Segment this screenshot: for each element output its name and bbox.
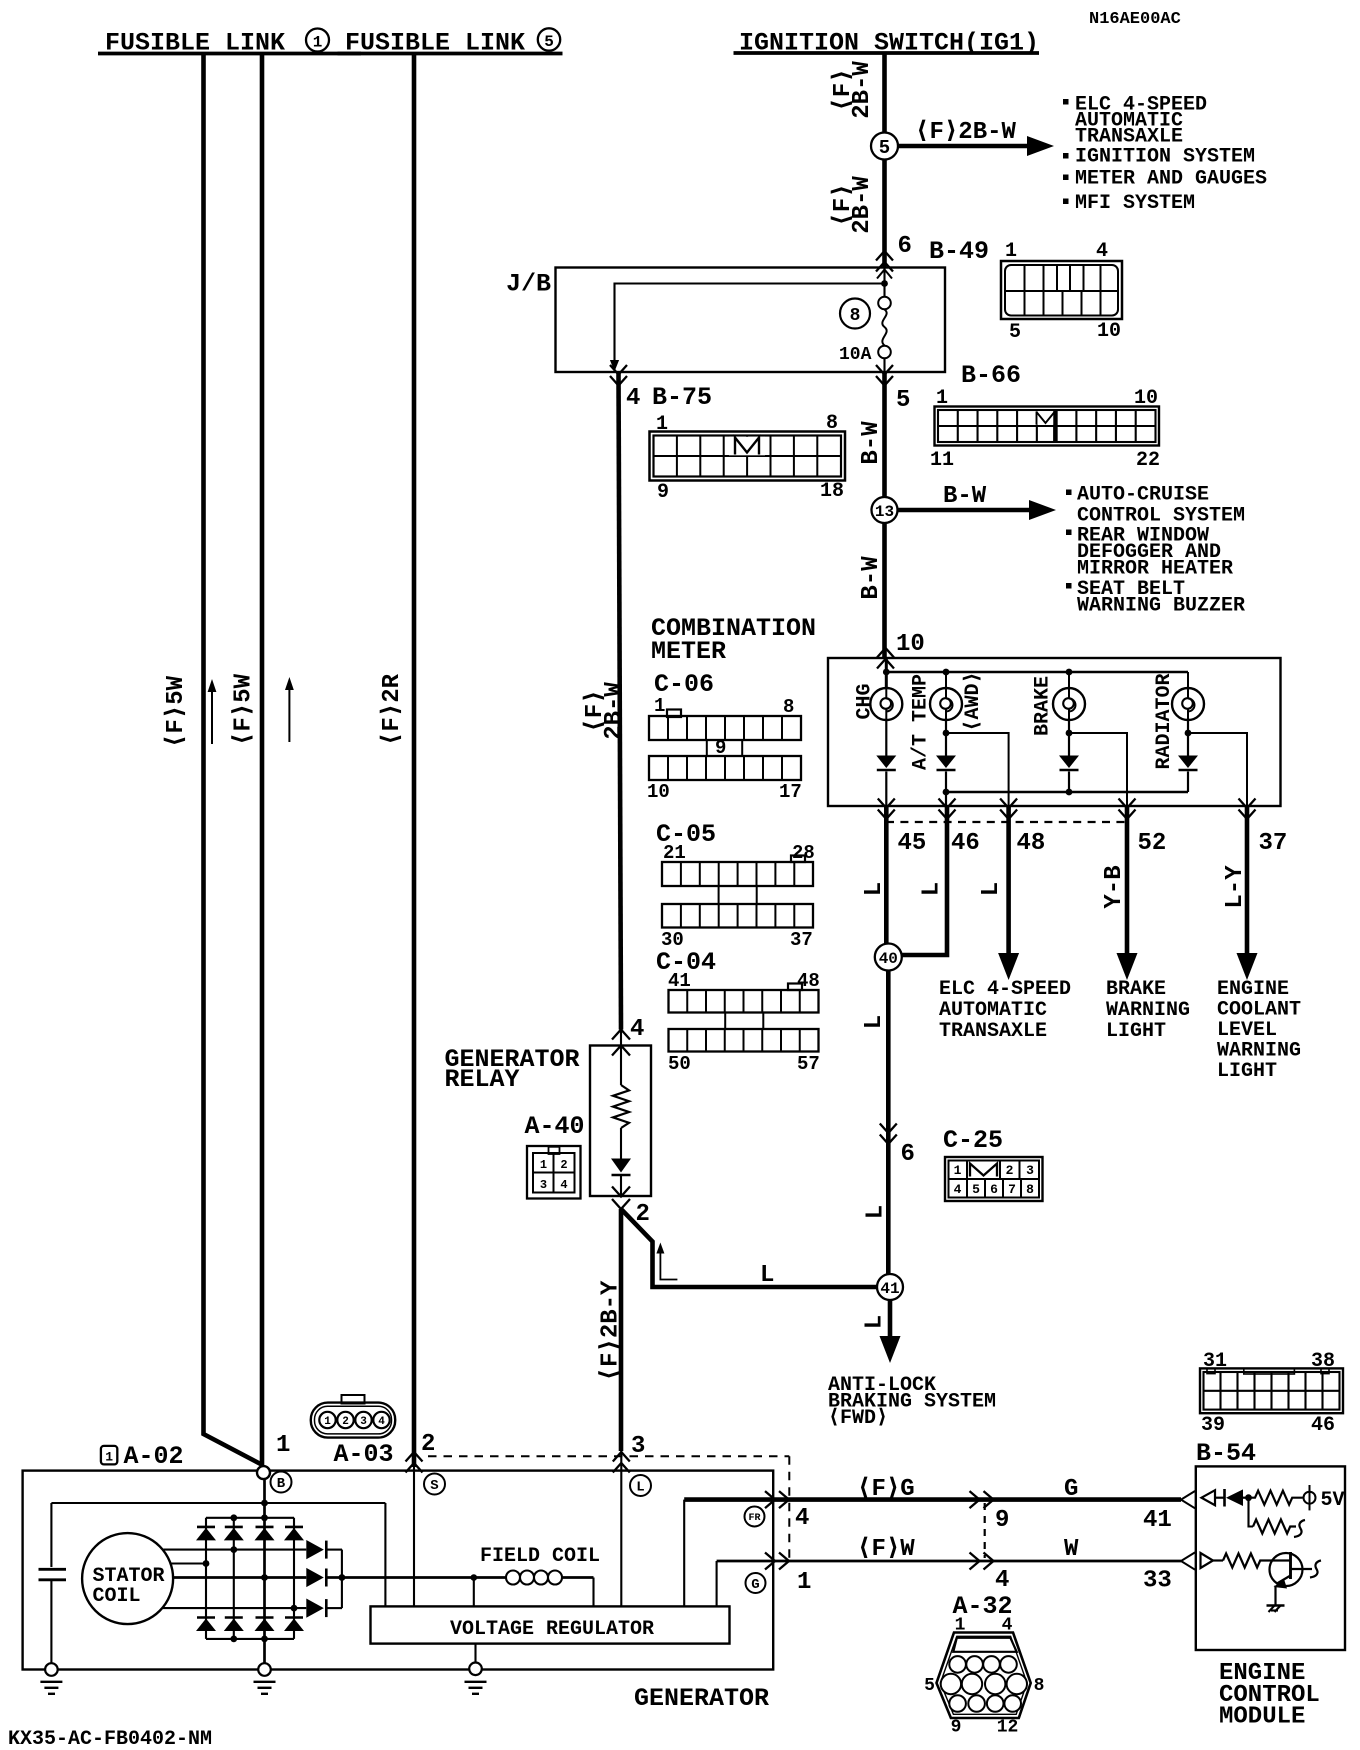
rectifier diode lower 1 — [196, 1618, 216, 1632]
svg-text:B-W: B-W — [943, 483, 987, 510]
stator phase wire 4 — [163, 1605, 307, 1612]
svg-text:GENERATOR: GENERATOR — [634, 1684, 769, 1713]
wire generator relay to node 41 — [621, 1209, 877, 1287]
svg-text:FR: FR — [748, 1513, 760, 1524]
connector crossing pin 5 double chevron below J/B — [876, 365, 893, 375]
terminal label circled S — [424, 1474, 445, 1495]
rectifier diode lower 4 — [284, 1618, 304, 1632]
svg-text:9: 9 — [715, 737, 726, 759]
svg-text:1: 1 — [1005, 240, 1017, 263]
svg-text:18: 18 — [820, 480, 844, 503]
A/T TEMP warning lamp — [930, 688, 962, 720]
terminal label circled G — [746, 1573, 766, 1593]
flow arrow on wire A — [208, 679, 217, 744]
svg-text:2B-W: 2B-W — [601, 682, 628, 740]
lamp label BRAKE — [1032, 676, 1055, 736]
svg-text:48: 48 — [1017, 830, 1046, 857]
svg-text:FIELD COIL: FIELD COIL — [480, 1545, 600, 1568]
svg-text:22: 22 — [1136, 449, 1160, 472]
rectifier ground — [254, 1663, 276, 1694]
rectifier diode lower 3 — [255, 1618, 275, 1632]
connector crossing FR wire double chevron — [765, 1491, 775, 1508]
svg-text:3: 3 — [1026, 1163, 1034, 1178]
wire B terminal down through rectifier — [263, 1479, 266, 1670]
svg-text:1: 1 — [656, 413, 668, 436]
connector crossing relay pin 4 chevron — [612, 1030, 630, 1040]
svg-text:9: 9 — [995, 1507, 1009, 1534]
svg-text:1: 1 — [954, 1163, 962, 1178]
svg-text:J/B: J/B — [506, 270, 551, 299]
relay internal wire and resistor — [613, 1030, 629, 1159]
wire label L above node 41 — [862, 1205, 889, 1219]
ECM pull-up resistor — [1249, 1491, 1303, 1505]
lamp label AWD — [962, 671, 985, 731]
connector B-54 pin face — [1200, 1368, 1343, 1413]
svg-text:G: G — [751, 1577, 759, 1593]
svg-text:9: 9 — [657, 481, 669, 504]
svg-text:2: 2 — [1006, 1163, 1014, 1178]
destination text engine coolant level warning light — [1217, 978, 1301, 1083]
node 13 splice — [872, 497, 898, 523]
svg-text:CHG: CHG — [854, 683, 877, 719]
svg-text:L: L — [862, 1205, 889, 1219]
node 40 splice — [875, 944, 902, 971]
diode output bus inside meter — [943, 789, 1188, 796]
svg-text:C-25: C-25 — [943, 1126, 1003, 1155]
connector crossing meter pin 10 double chevron — [877, 648, 894, 658]
rectifier diode right 1 — [306, 1540, 342, 1559]
svg-text:LIGHT: LIGHT — [1217, 1060, 1277, 1083]
svg-text:40: 40 — [879, 950, 898, 968]
svg-text:4: 4 — [626, 385, 640, 412]
junction dot inside J/B — [881, 280, 888, 287]
radiator warning lamp — [1172, 688, 1204, 720]
svg-text:5: 5 — [896, 387, 910, 414]
svg-text:50: 50 — [668, 1053, 691, 1075]
wire label B-W below node 13 — [858, 556, 885, 600]
connector crossing pin 4 double chevron below J/B — [610, 365, 627, 375]
rectifier diode lower 2 — [224, 1618, 244, 1632]
svg-text:8: 8 — [826, 412, 838, 435]
svg-text:TRANSAXLE: TRANSAXLE — [939, 1020, 1047, 1043]
wire generator G output to engine control module — [717, 1560, 1181, 1563]
svg-text:4: 4 — [795, 1505, 809, 1532]
wire label B-W above node 13 — [858, 421, 885, 465]
connector C-06 pin face — [649, 710, 801, 781]
female terminal at ECM pin 33 — [1181, 1552, 1195, 1569]
connector B-54 pin numbers top — [1203, 1350, 1335, 1373]
wire B terminal bus inside generator — [51, 1500, 385, 1607]
connector B-49 pin numbers — [1005, 240, 1121, 344]
wire fusible link 5 (F)2R to generator S terminal — [412, 55, 417, 1467]
wire node 5 down to junction block — [882, 160, 887, 268]
connector C-06 pin numbers — [647, 695, 802, 803]
svg-text:⟨F⟩2R: ⟨F⟩2R — [379, 673, 406, 746]
svg-text:10: 10 — [896, 631, 925, 658]
svg-text:1: 1 — [936, 387, 948, 410]
svg-text:BRAKE: BRAKE — [1106, 978, 1166, 1001]
svg-text:B-66: B-66 — [961, 361, 1021, 390]
svg-text:BRAKE: BRAKE — [1032, 676, 1055, 736]
svg-text:A-03: A-03 — [334, 1440, 394, 1469]
arrow entering relay top — [612, 1046, 630, 1056]
wire label (F)2B-W upper — [830, 61, 876, 119]
svg-text:21: 21 — [663, 842, 686, 864]
ECM input terminal pin 41 — [1202, 1490, 1224, 1505]
wire ignition switch IG1 down to node 5 — [882, 54, 887, 133]
svg-text:1: 1 — [105, 1450, 113, 1465]
svg-text:4: 4 — [954, 1182, 962, 1197]
svg-text:WARNING BUZZER: WARNING BUZZER — [1077, 595, 1245, 618]
svg-text:A-40: A-40 — [525, 1112, 585, 1141]
svg-text:MFI SYSTEM: MFI SYSTEM — [1075, 192, 1195, 215]
destination text anti-lock braking system — [828, 1374, 996, 1430]
svg-text:N16AE00AC: N16AE00AC — [1089, 10, 1181, 29]
voltage regulator box — [371, 1606, 730, 1643]
svg-text:5: 5 — [1009, 321, 1021, 344]
svg-text:WARNING: WARNING — [1106, 999, 1190, 1022]
svg-text:17: 17 — [779, 781, 802, 803]
junction dot in ECM — [1245, 1494, 1252, 1501]
svg-text:L: L — [861, 1315, 888, 1329]
svg-text:⟨F⟩2B-W: ⟨F⟩2B-W — [915, 119, 1017, 146]
wires lamps to diodes — [886, 720, 1188, 756]
ECM ground — [1267, 1606, 1285, 1613]
wire fusible link 1 branch A (F)5W to generator B terminal — [204, 55, 262, 1465]
rectifier diode upper 3 — [255, 1527, 275, 1541]
power source label FUSIBLE LINK 1 — [98, 29, 361, 58]
wire node 41 to anti-lock braking system — [880, 1300, 901, 1363]
svg-text:8: 8 — [783, 696, 794, 718]
svg-text:52: 52 — [1138, 830, 1167, 857]
svg-text:4: 4 — [995, 1567, 1009, 1594]
svg-text:8: 8 — [1034, 1676, 1045, 1696]
svg-text:3: 3 — [360, 1416, 367, 1428]
fuse number circled 8 — [840, 299, 870, 329]
destination text brake warning light — [1106, 978, 1190, 1043]
svg-text:RADIATOR: RADIATOR — [1153, 673, 1176, 769]
connector A-32 crossing on FR wire — [970, 1491, 980, 1508]
svg-text:IGNITION SYSTEM: IGNITION SYSTEM — [1075, 146, 1255, 169]
svg-text:33: 33 — [1143, 1568, 1172, 1595]
svg-text:5: 5 — [972, 1182, 980, 1197]
generator relay box — [590, 1046, 651, 1197]
svg-text:46: 46 — [1311, 1414, 1335, 1437]
svg-text:8: 8 — [1026, 1182, 1034, 1197]
svg-text:KX35-AC-FB0402-NM: KX35-AC-FB0402-NM — [8, 1728, 212, 1750]
svg-text:A/T TEMP: A/T TEMP — [910, 674, 933, 770]
stator phase wire 2 — [171, 1560, 209, 1567]
terminal label circled B — [271, 1472, 292, 1493]
wire pin 45 to node 40 — [884, 806, 889, 944]
svg-text:5: 5 — [879, 137, 890, 159]
diode under A/T TEMP lamp — [936, 756, 956, 771]
svg-text:1: 1 — [654, 695, 665, 717]
wire label (F)5W second — [230, 673, 257, 746]
svg-text:2B-W: 2B-W — [849, 176, 876, 234]
junction block J/B box — [556, 268, 946, 373]
arrow entering J/B top — [877, 270, 892, 279]
connector crossing relay pin 2 double chevron — [612, 1187, 630, 1197]
wire inside J/B from ignition feed to left branch with arrow — [610, 284, 885, 372]
wire label (F)5W first — [163, 675, 190, 748]
wire generator FR output to engine control module — [684, 1497, 1181, 1502]
svg-text:L: L — [760, 1262, 774, 1289]
svg-text:2: 2 — [421, 1431, 435, 1458]
svg-text:Y-B: Y-B — [1101, 865, 1128, 908]
rectifier bottom bus — [206, 1636, 294, 1643]
rectifier output bus — [339, 1550, 346, 1609]
wire S terminal to voltage regulator — [413, 1467, 415, 1606]
svg-text:5: 5 — [924, 1676, 935, 1696]
svg-text:COIL: COIL — [93, 1585, 141, 1608]
engine control module label — [1219, 1660, 1320, 1731]
svg-text:⟨F⟩2B-Y: ⟨F⟩2B-Y — [597, 1280, 624, 1382]
svg-text:9: 9 — [951, 1718, 962, 1738]
destination list auto-cruise / defogger / seat belt — [1066, 484, 1245, 618]
rectifier top bus — [206, 1514, 294, 1521]
diode under RADIATOR lamp — [1178, 756, 1198, 771]
connector C-05 pin face — [662, 856, 813, 928]
rectifier diode upper 1 — [196, 1527, 216, 1541]
field coil — [342, 1571, 594, 1607]
connector crossing G wire double chevron — [765, 1553, 775, 1570]
power source label IGNITION SWITCH (IG1) — [734, 29, 1040, 58]
wire fusible link 1 branch B (F)5W to generator B terminal — [260, 55, 265, 1466]
svg-text:1: 1 — [276, 1432, 290, 1459]
svg-text:LIGHT: LIGHT — [1106, 1020, 1166, 1043]
generator B terminal — [257, 1466, 270, 1479]
wire bus drops to lamps — [946, 672, 1188, 689]
diode under BRAKE lamp — [1059, 756, 1079, 771]
diode under CHG lamp — [876, 756, 896, 771]
svg-text:VOLTAGE REGULATOR: VOLTAGE REGULATOR — [450, 1618, 654, 1641]
ECM sense resistor branch — [1249, 1498, 1306, 1537]
svg-text:4: 4 — [378, 1416, 385, 1428]
svg-text:RELAY: RELAY — [445, 1065, 520, 1094]
engine control module box — [1196, 1466, 1345, 1650]
svg-text:⟨AWD⟩: ⟨AWD⟩ — [962, 671, 985, 731]
svg-text:L: L — [636, 1480, 644, 1496]
svg-text:6: 6 — [898, 233, 912, 260]
female terminal at ECM pin 41 — [1181, 1491, 1195, 1508]
svg-text:⟨FWD⟩: ⟨FWD⟩ — [828, 1407, 888, 1430]
wire G terminal to voltage regulator — [716, 1561, 718, 1606]
svg-text:⟨F⟩5W: ⟨F⟩5W — [163, 675, 190, 748]
stator coil — [82, 1533, 173, 1624]
svg-text:3: 3 — [540, 1178, 547, 1192]
svg-text:2: 2 — [636, 1201, 650, 1228]
lamp label RADIATOR — [1153, 673, 1176, 769]
connector crossing B-49 pin 6 double chevron — [876, 251, 893, 261]
svg-text:ELC 4-SPEED: ELC 4-SPEED — [939, 978, 1071, 1001]
svg-text:⟨F⟩5W: ⟨F⟩5W — [230, 673, 257, 746]
wire RADIATOR lamp branch to pin 37 — [1188, 733, 1247, 806]
svg-text:5: 5 — [544, 33, 554, 51]
svg-text:AUTOMATIC: AUTOMATIC — [939, 999, 1047, 1022]
connector crossing generator S terminal double chevron — [406, 1452, 423, 1462]
connector A-03 pin face — [311, 1395, 395, 1438]
generator relay label — [445, 1045, 580, 1094]
svg-text:1: 1 — [313, 34, 323, 52]
connector A-32 boundary dashed line — [984, 1503, 986, 1558]
terminal label circled FR — [745, 1507, 765, 1527]
svg-text:45: 45 — [898, 830, 927, 857]
lamp label A/T TEMP — [910, 674, 933, 770]
wire pin 52 to brake warning light — [1117, 806, 1138, 980]
wire labels L L L Y-B L-Y — [861, 865, 1249, 909]
wire relay pin 2 down as (F)2B-Y to generator L — [619, 1209, 624, 1451]
wire pin 37 to coolant level warning light — [1237, 806, 1258, 980]
connector B-66 pin numbers — [930, 387, 1160, 472]
svg-text:1: 1 — [955, 1616, 966, 1636]
svg-text:G: G — [1064, 1476, 1078, 1503]
ECM output terminal pin 33 — [1201, 1553, 1224, 1568]
svg-text:MODULE: MODULE — [1219, 1704, 1305, 1731]
connector C-04 pin numbers — [668, 970, 820, 1075]
svg-text:L: L — [861, 882, 888, 896]
wire BRAKE lamp branch to pin 52 — [1069, 733, 1127, 806]
rectifier bridge verticals — [206, 1518, 294, 1639]
connector C-04 pin face — [669, 984, 819, 1052]
svg-text:B-75: B-75 — [652, 383, 712, 412]
svg-text:39: 39 — [1201, 1414, 1225, 1437]
ECM diode on pin 41 circuit — [1225, 1489, 1249, 1507]
ECM transistor — [1270, 1552, 1322, 1589]
svg-text:41: 41 — [1143, 1507, 1172, 1534]
fuse 8 10A symbol — [878, 297, 891, 372]
connector A-32 pin face — [937, 1633, 1031, 1719]
destination text ELC 4-speed automatic transaxle — [939, 978, 1071, 1043]
connector B-49 pin face — [1001, 261, 1122, 319]
generator box — [23, 1471, 774, 1670]
wire B-W from J/B to node 13 — [882, 372, 887, 658]
wire node 40 down to node 41 — [886, 971, 891, 1275]
svg-text:46: 46 — [951, 830, 980, 857]
connector C-05 pin numbers — [661, 842, 815, 951]
meter pin numbers 45 46 48 52 37 — [898, 830, 1288, 857]
wire label L below node 40 — [861, 1015, 888, 1029]
brake warning lamp — [1053, 688, 1085, 720]
svg-text:13: 13 — [875, 503, 894, 521]
capacitor — [39, 1503, 67, 1668]
svg-text:L-Y: L-Y — [1222, 865, 1249, 909]
connector B-75 pin face — [650, 432, 846, 481]
connector A-02 label with numbered square — [101, 1442, 184, 1471]
svg-text:L: L — [861, 1015, 888, 1029]
lamp supply bus inside meter — [883, 669, 1188, 676]
combination meter box — [828, 658, 1281, 806]
svg-text:6: 6 — [990, 1182, 998, 1197]
connector crossing chevrons below meter — [878, 799, 1256, 820]
wire node 5 branch to ELC transaxle etc — [898, 136, 1054, 156]
svg-text:A-02: A-02 — [124, 1442, 184, 1471]
svg-text:1: 1 — [324, 1416, 331, 1428]
svg-text:S: S — [430, 1478, 438, 1494]
rectifier diode right 3 — [306, 1599, 342, 1618]
rectifier diode right 2 — [306, 1568, 342, 1587]
svg-text:1: 1 — [540, 1158, 547, 1172]
svg-text:37: 37 — [1259, 830, 1288, 857]
wire pin 48 to ELC transaxle — [998, 806, 1019, 980]
svg-text:48: 48 — [797, 970, 820, 992]
combination meter label — [651, 614, 816, 666]
svg-text:W: W — [1064, 1536, 1079, 1563]
svg-text:B-49: B-49 — [929, 237, 989, 266]
stator phase wire 1 — [164, 1546, 307, 1553]
svg-text:METER: METER — [651, 637, 726, 666]
svg-text:8: 8 — [850, 306, 861, 326]
svg-text:⟨F⟩W: ⟨F⟩W — [857, 1536, 915, 1563]
svg-text:B: B — [277, 1476, 286, 1492]
connector B-66 pin face — [935, 407, 1160, 446]
svg-text:37: 37 — [790, 929, 813, 951]
rectifier diode upper 2 — [224, 1527, 244, 1541]
connector A-32 pin numbers — [924, 1616, 1044, 1738]
svg-text:⟨F⟩G: ⟨F⟩G — [857, 1476, 915, 1503]
branch dots on lamp outputs — [943, 730, 1192, 737]
svg-text:7: 7 — [1008, 1182, 1016, 1197]
svg-text:L: L — [918, 882, 945, 896]
wire label (F)2B-W lower — [830, 176, 876, 234]
power source label FUSIBLE LINK 5 — [338, 28, 563, 57]
connector boundary dashed line below meter — [886, 821, 1127, 823]
svg-text:10: 10 — [1134, 387, 1158, 410]
wire pin 46 to node 40 — [902, 806, 947, 955]
charge warning lamp CHG — [870, 688, 902, 720]
svg-text:28: 28 — [792, 842, 815, 864]
node 5 splice — [871, 133, 898, 160]
node 41 splice — [877, 1274, 903, 1300]
svg-text:4: 4 — [1096, 240, 1108, 263]
svg-text:B-W: B-W — [858, 556, 885, 600]
connector C-25 pin face — [945, 1157, 1043, 1201]
svg-text:57: 57 — [797, 1053, 820, 1075]
capacitor ground — [40, 1663, 62, 1694]
ECM transistor emitter to ground — [1274, 1586, 1276, 1606]
svg-text:5V: 5V — [1321, 1489, 1345, 1512]
rectifier diode upper 4 — [284, 1527, 304, 1541]
svg-text:41: 41 — [668, 970, 691, 992]
svg-text:4: 4 — [560, 1178, 567, 1192]
svg-text:2: 2 — [560, 1158, 567, 1172]
svg-text:10A: 10A — [839, 345, 872, 365]
lamp label CHG — [854, 683, 877, 719]
wire label L below node 41 — [861, 1315, 888, 1329]
svg-text:10: 10 — [647, 781, 670, 803]
svg-text:2: 2 — [342, 1416, 349, 1428]
terminal label circled L — [630, 1475, 651, 1496]
wire J/B internal vertical to fuse — [883, 268, 885, 297]
wire L terminal to voltage regulator — [620, 1450, 622, 1606]
svg-text:L: L — [978, 882, 1005, 896]
ECM base resistor — [1223, 1554, 1270, 1568]
connector A-40 pin face — [527, 1146, 581, 1199]
svg-text:41: 41 — [880, 1280, 899, 1298]
wire AWD lamp branch to pin 48 — [946, 733, 1009, 806]
svg-text:METER AND GAUGES: METER AND GAUGES — [1075, 168, 1267, 191]
connector A-02 boundary dashed line — [428, 1456, 789, 1561]
svg-text:6: 6 — [901, 1141, 915, 1168]
connector crossing generator pin 3 double chevron — [613, 1452, 630, 1462]
svg-text:AUTO-CRUISE: AUTO-CRUISE — [1077, 484, 1209, 507]
flow arrow on wire B — [285, 677, 294, 742]
svg-text:B-W: B-W — [858, 421, 885, 465]
wires diodes to outputs — [886, 772, 1188, 807]
svg-text:B-54: B-54 — [1196, 1439, 1256, 1468]
svg-text:2B-W: 2B-W — [849, 61, 876, 119]
relay diode — [611, 1159, 631, 1197]
